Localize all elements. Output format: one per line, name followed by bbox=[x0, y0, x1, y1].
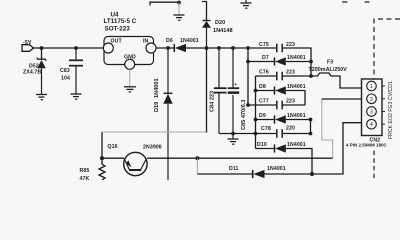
svg-text:4 PIN 2.50MM 180C: 4 PIN 2.50MM 180C bbox=[346, 143, 388, 148]
wire pin2 bbox=[322, 98, 362, 100]
capacitor C75 223 bbox=[259, 42, 295, 52]
svg-text:1N4001: 1N4001 bbox=[287, 84, 306, 90]
svg-text:D10: D10 bbox=[257, 142, 267, 148]
svg-text:C84 223: C84 223 bbox=[210, 91, 216, 112]
svg-text:C76: C76 bbox=[259, 70, 269, 76]
node bus-fuse bbox=[309, 74, 313, 78]
diode D9 1N4001 bbox=[256, 113, 311, 134]
svg-text:R85: R85 bbox=[80, 168, 90, 174]
node rail-zener bbox=[40, 46, 44, 50]
svg-text:D7: D7 bbox=[262, 55, 269, 61]
capacitor C76 223 bbox=[256, 70, 312, 81]
svg-text:1N4001: 1N4001 bbox=[287, 113, 306, 119]
svg-text:2: 2 bbox=[370, 97, 373, 103]
diode D6 1N4001 bbox=[166, 38, 199, 52]
node base bbox=[100, 156, 104, 160]
node gndbus-C85 bbox=[231, 132, 235, 136]
wire collector rail bbox=[147, 157, 333, 159]
node rail-C83 bbox=[74, 46, 78, 50]
svg-text:OUT: OUT bbox=[111, 39, 123, 45]
svg-text:1N4148: 1N4148 bbox=[213, 28, 233, 34]
wire zener drop bbox=[41, 48, 43, 59]
svg-text:C85 470/6.3: C85 470/6.3 bbox=[241, 100, 247, 130]
svg-text:C83: C83 bbox=[60, 68, 70, 74]
wire dashed boundary below connector bbox=[373, 151, 375, 181]
svg-text:D19: D19 bbox=[154, 102, 160, 112]
node collector-D11 bbox=[195, 156, 199, 160]
svg-text:47K: 47K bbox=[80, 176, 90, 180]
node rail-C84 bbox=[217, 46, 221, 50]
svg-text:104: 104 bbox=[61, 76, 70, 82]
wire C76 left stub down bbox=[255, 76, 257, 149]
wire pin2 routing (faint) bbox=[322, 99, 333, 158]
wire faint drop to ground bbox=[178, 3, 180, 15]
zener D52 ZX4.7B bbox=[23, 58, 46, 94]
wire drop to D11 row (faint) bbox=[196, 158, 198, 174]
capacitor C84 223 bbox=[210, 48, 227, 134]
svg-text:C78: C78 bbox=[261, 126, 271, 132]
node rail-col248 bbox=[246, 46, 250, 50]
wire dashed boundary right bbox=[374, 19, 400, 79]
node rail-C85 bbox=[231, 46, 235, 50]
svg-text:LT1175-5 C: LT1175-5 C bbox=[104, 18, 137, 25]
wire D20 column top hook bbox=[202, 2, 207, 21]
svg-text:+: + bbox=[234, 82, 237, 88]
svg-text:ZX4.7B: ZX4.7B bbox=[23, 70, 41, 76]
wire rail regulator IN to D6 bbox=[156, 47, 174, 49]
svg-text:223: 223 bbox=[286, 70, 295, 76]
node top-left junction bbox=[177, 1, 181, 5]
regulator U4 LT1175-5 SOT-223 bbox=[103, 12, 156, 70]
node rail-D19 bbox=[166, 46, 170, 50]
svg-text:1N4001: 1N4001 bbox=[180, 38, 199, 44]
wire base column up bbox=[101, 132, 103, 158]
port -5V bbox=[22, 40, 34, 51]
svg-text:220: 220 bbox=[286, 126, 295, 132]
node D11-D10 bbox=[310, 172, 314, 176]
node D9 left bbox=[254, 118, 258, 122]
svg-text:D20: D20 bbox=[215, 20, 225, 26]
svg-text:3: 3 bbox=[370, 110, 373, 116]
svg-text:2N3906: 2N3906 bbox=[143, 145, 162, 151]
svg-text:1N4001: 1N4001 bbox=[287, 142, 306, 148]
capacitor C85 470/6.3 electrolytic bbox=[228, 48, 247, 134]
svg-text:1N4001: 1N4001 bbox=[154, 78, 160, 98]
wire D20 column lower bbox=[206, 48, 208, 133]
svg-text:C77: C77 bbox=[259, 99, 269, 105]
svg-text:Q16: Q16 bbox=[108, 144, 118, 150]
node C78 right bbox=[309, 132, 313, 136]
diode D8 1N4001 bbox=[256, 84, 306, 105]
ground zener bbox=[36, 95, 47, 100]
wire column 248 bbox=[247, 48, 249, 105]
svg-text:4: 4 bbox=[370, 122, 373, 128]
wire rail D6 to corner bbox=[186, 47, 276, 49]
capacitor C83 104 bbox=[60, 48, 83, 94]
node D9 right bbox=[309, 118, 313, 122]
node rail-D20col bbox=[205, 46, 209, 50]
diode D7 1N4001 bbox=[248, 55, 311, 66]
node D7 left bbox=[246, 60, 250, 64]
wire rail right end to bus bbox=[283, 48, 311, 76]
wire Q16 base/emitter left bbox=[102, 157, 124, 159]
wire regulator gnd stub (faint) bbox=[129, 70, 131, 87]
wire dashed boundary top bbox=[342, 1, 370, 3]
svg-text:F3: F3 bbox=[327, 60, 333, 66]
node D7 right bbox=[309, 60, 313, 64]
diode D19 1N4001 vertical bbox=[154, 48, 173, 180]
ground mid (C84/C85) bbox=[228, 134, 239, 145]
fuse F3 T200mAL/250V bbox=[309, 60, 362, 89]
capacitor C77 223 bbox=[248, 99, 305, 110]
resistor R85 47K bbox=[80, 158, 106, 182]
svg-text:1N4001: 1N4001 bbox=[287, 55, 306, 61]
svg-text:D6: D6 bbox=[166, 38, 173, 44]
svg-text:SOT-223: SOT-223 bbox=[105, 26, 131, 33]
capacitor C78 220 bbox=[261, 126, 311, 138]
diode D10 1N4001 bbox=[256, 142, 313, 174]
svg-text:1N4001: 1N4001 bbox=[267, 166, 286, 172]
wire main rail left bbox=[34, 47, 104, 49]
diode D20 1N4148 bbox=[202, 20, 233, 47]
svg-text:T200mAL/250V: T200mAL/250V bbox=[309, 67, 348, 73]
diode D11 1N4001 bbox=[197, 123, 361, 178]
wire base top link (faint) bbox=[102, 131, 207, 133]
ground top-right bbox=[241, 0, 252, 8]
ground regulator bbox=[124, 87, 136, 92]
svg-text:FRCK EO2 FG3 CV/CD1: FRCK EO2 FG3 CV/CD1 bbox=[388, 81, 394, 139]
svg-text:D8: D8 bbox=[259, 84, 266, 90]
wire ground bus bbox=[219, 133, 276, 135]
svg-text:C75: C75 bbox=[259, 42, 269, 48]
node gndbus-col bbox=[254, 132, 258, 136]
svg-text:223: 223 bbox=[286, 42, 295, 48]
transistor Q16 2N3906 bbox=[108, 144, 162, 176]
connector CN2 bbox=[346, 79, 394, 148]
ground top-left bbox=[174, 15, 185, 20]
svg-text:1: 1 bbox=[370, 84, 373, 90]
svg-text:223: 223 bbox=[286, 99, 295, 105]
svg-text:D11: D11 bbox=[229, 166, 239, 172]
ground C83 bbox=[71, 94, 82, 99]
node C77 left bbox=[246, 103, 250, 107]
svg-text:D9: D9 bbox=[259, 113, 266, 119]
wire top stub segment bbox=[150, 2, 179, 5]
node D8 left bbox=[254, 89, 258, 93]
